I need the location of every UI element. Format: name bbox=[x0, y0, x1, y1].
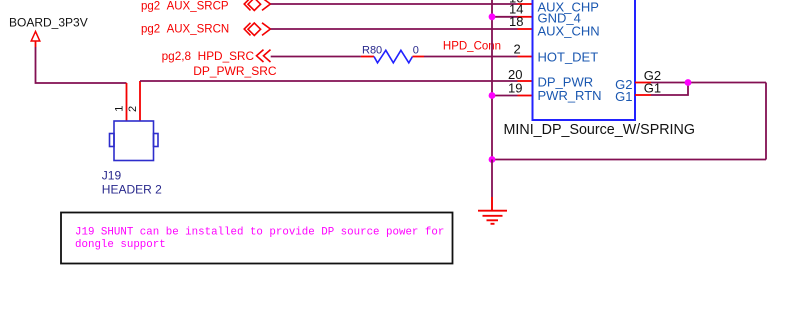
svg-text:HEADER 2: HEADER 2 bbox=[102, 183, 162, 197]
svg-text:0: 0 bbox=[413, 45, 419, 57]
svg-text:MINI_DP_Source_W/SPRING: MINI_DP_Source_W/SPRING bbox=[504, 122, 695, 138]
pin stub R80 left bbox=[361, 56, 374, 58]
connector J19 body bbox=[110, 121, 159, 161]
wire ground vertical bbox=[491, 0, 493, 160]
svg-text:DP_PWR_SRC: DP_PWR_SRC bbox=[193, 64, 277, 78]
svg-text:2: 2 bbox=[514, 41, 521, 56]
pin stub HOT_DET bbox=[518, 56, 533, 58]
svg-text:HOT_DET: HOT_DET bbox=[538, 50, 599, 65]
wire AUX_SRCP to pin bbox=[271, 3, 518, 5]
svg-text:PWR_RTN: PWR_RTN bbox=[538, 88, 602, 103]
wire AUX_SRCN to pin bbox=[271, 28, 518, 30]
header J19 pin 2 wire bbox=[139, 81, 141, 121]
svg-text:19: 19 bbox=[508, 81, 522, 96]
svg-text:pg2,8 HPD_SRC: pg2,8 HPD_SRC bbox=[162, 49, 255, 63]
pin stub G1 bbox=[635, 94, 651, 96]
pin stub PWR_RTN bbox=[518, 95, 533, 97]
pin stub GND_4 bbox=[518, 16, 533, 18]
op IC MINI_DP_Source_W/SPRING body bbox=[533, 0, 636, 120]
junction at G1/G2 bbox=[685, 79, 692, 86]
pin stub R80 right bbox=[413, 56, 425, 58]
wire G2 to right loop bbox=[651, 82, 766, 84]
junction at PWR_RTN bbox=[489, 92, 496, 99]
off-page connector AUX_SRCP bbox=[244, 0, 270, 10]
wire PWR_RTN to vertical bbox=[492, 95, 518, 97]
wire GND_4 to vertical bbox=[492, 16, 518, 18]
svg-text:AUX_CHN: AUX_CHN bbox=[538, 24, 600, 39]
svg-text:J19 SHUNT can be installed to: J19 SHUNT can be installed to provide DP… bbox=[75, 227, 444, 239]
svg-text:BOARD_3P3V: BOARD_3P3V bbox=[9, 16, 88, 30]
resistor R80 bbox=[374, 50, 413, 63]
wire ground bottom horizontal bbox=[492, 159, 766, 161]
junction at GND_4 bbox=[489, 13, 496, 20]
pin stub DP_PWR bbox=[518, 80, 533, 82]
note box bbox=[61, 213, 453, 264]
svg-text:1: 1 bbox=[113, 106, 125, 112]
pin stub G2 bbox=[635, 82, 651, 84]
wire G1 up to G2 net bbox=[651, 83, 688, 96]
wire R80 to HOT_DET bbox=[424, 56, 518, 58]
header J19 pin 1 wire bbox=[126, 83, 128, 121]
wire to ground symbol bbox=[491, 160, 493, 198]
junction at ground corner bbox=[489, 156, 496, 163]
ground bbox=[478, 197, 507, 224]
pin stub AUX_CHN bbox=[518, 28, 533, 30]
pin stub AUX_CHP bbox=[518, 3, 533, 5]
wire BOARD_3P3V rail (left) bbox=[36, 47, 127, 83]
svg-text:pg2 AUX_SRCN: pg2 AUX_SRCN bbox=[141, 23, 229, 35]
svg-text:R80: R80 bbox=[362, 45, 382, 57]
off-page connector HPD_SRC (double chevron) bbox=[257, 50, 271, 62]
svg-text:pg2 AUX_SRCP: pg2 AUX_SRCP bbox=[141, 0, 229, 12]
wire DP_PWR_SRC rail bbox=[140, 80, 518, 82]
svg-text:2: 2 bbox=[127, 106, 139, 112]
svg-text:dongle support: dongle support bbox=[75, 239, 166, 251]
svg-text:J19: J19 bbox=[102, 169, 122, 183]
svg-text:18: 18 bbox=[509, 14, 523, 29]
wire right loop vertical bbox=[765, 83, 767, 160]
wire HPD_SRC to R80 bbox=[271, 56, 361, 58]
off-page connector AUX_SRCN bbox=[244, 23, 270, 36]
power symbol BOARD_3P3V bbox=[9, 16, 88, 48]
svg-text:G1: G1 bbox=[615, 89, 632, 104]
